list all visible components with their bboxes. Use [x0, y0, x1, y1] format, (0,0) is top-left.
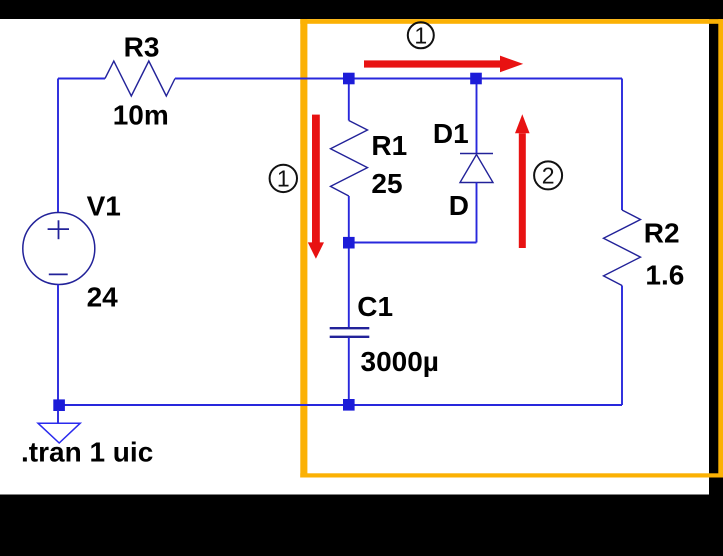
voltage source V1 [23, 213, 95, 285]
capacitor C1 [330, 248, 370, 405]
diode D1 [460, 79, 493, 243]
current arrow loop2 up [515, 114, 530, 248]
svg-text:1: 1 [277, 166, 290, 192]
node junction top D1 [470, 73, 482, 85]
svg-text:D1: D1 [433, 118, 469, 149]
svg-text:3000µ: 3000µ [361, 346, 439, 377]
resistor R3 [105, 61, 175, 96]
loop label 1 top [408, 22, 434, 48]
loop label 2 [534, 161, 562, 189]
svg-text:D: D [449, 190, 469, 221]
ground [38, 410, 80, 443]
wire top middle [175, 78, 622, 80]
svg-text:24: 24 [87, 282, 119, 313]
svg-text:1.6: 1.6 [645, 260, 684, 291]
wire right vertical bottom [621, 286, 623, 406]
svg-text:25: 25 [371, 168, 402, 199]
node junction mid [343, 237, 355, 249]
wire bottom horizontal [58, 404, 622, 406]
wire V1 bottom [57, 285, 59, 406]
wire top-left horizontal [58, 78, 105, 80]
svg-text:C1: C1 [357, 291, 393, 322]
resistor R1 [331, 84, 368, 243]
loop label 1 left [270, 165, 297, 192]
wire mid horizontal [349, 242, 477, 244]
svg-text:1: 1 [414, 22, 427, 48]
current arrow loop1 down [308, 115, 324, 259]
svg-text:R3: R3 [124, 31, 160, 62]
node junction ground [53, 399, 65, 411]
resistor R2 [604, 210, 641, 286]
current arrow loop1 top [364, 56, 523, 73]
wire left vertical [57, 79, 59, 214]
svg-text:R1: R1 [371, 130, 407, 161]
svg-text:R2: R2 [644, 218, 680, 249]
node junction bottom C1 [343, 399, 355, 411]
node junction top R1 [343, 73, 355, 85]
svg-text:10m: 10m [113, 99, 169, 130]
svg-text:2: 2 [542, 163, 555, 189]
wire right vertical top [621, 79, 623, 211]
svg-text:.tran 1 uic: .tran 1 uic [21, 437, 153, 468]
svg-text:V1: V1 [87, 191, 121, 222]
loop highlight box [300, 19, 723, 477]
